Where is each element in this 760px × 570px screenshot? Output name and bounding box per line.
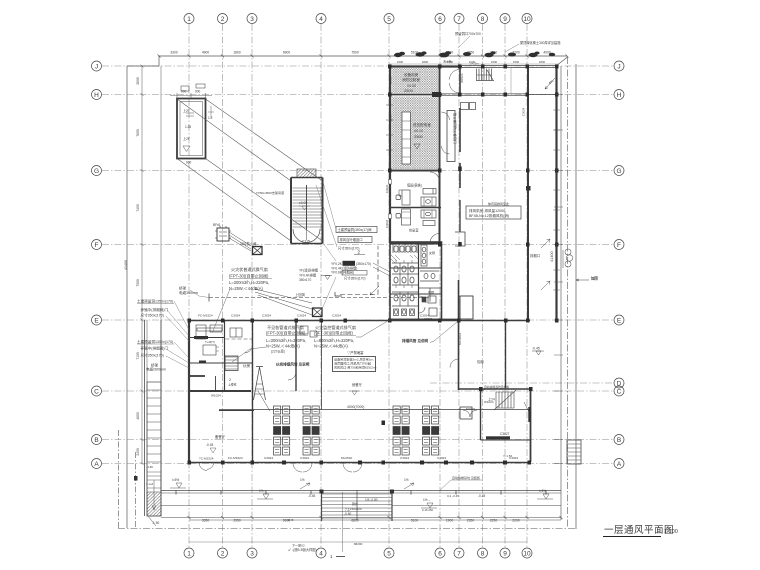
svg-text:H: H: [617, 92, 622, 99]
damper C leaders: [255, 289, 312, 315]
svg-text:2250: 2250: [490, 519, 498, 523]
svg-text:6800: 6800: [351, 519, 359, 523]
office window w2: [389, 214, 392, 219]
hall slope 2: [370, 286, 379, 295]
svg-text:41400: 41400: [550, 251, 554, 262]
axis C left: [92, 386, 102, 396]
wc stalls row1: [393, 244, 417, 253]
ramp arrow: [152, 480, 156, 510]
svg-text:7500: 7500: [351, 51, 359, 55]
stair treads: [293, 188, 322, 227]
grid F: [102, 244, 614, 246]
axis 9 top: [500, 14, 510, 24]
svg-text:W1024: W1024: [484, 400, 494, 404]
wall E north-wing bottom: [389, 319, 460, 321]
column canteen mid: [382, 421, 386, 426]
svg-text:2: 2: [221, 551, 225, 558]
wall office east: [439, 181, 441, 244]
east exterior stair: [567, 440, 581, 464]
terrace corner mark: [148, 516, 156, 526]
svg-text:电缆l300mm: 电缆l300mm: [146, 367, 166, 372]
svg-text:C1524: C1524: [389, 75, 393, 84]
se stair treads: [496, 392, 514, 408]
slope arrow left of stair: [300, 478, 310, 489]
terrace east edge: [560, 66, 562, 520]
svg-text:男厕: 男厕: [428, 290, 434, 295]
svg-text:L=800m3/h,H=220Pa,: L=800m3/h,H=220Pa,: [314, 338, 354, 343]
svg-text:8: 8: [481, 16, 485, 23]
switchgear cabinet: [402, 112, 411, 164]
axis D right: [614, 378, 624, 388]
svg-text:i=5%: i=5%: [172, 478, 179, 482]
svg-text:C3024: C3024: [231, 314, 240, 318]
svg-text:上2F: 上2F: [183, 136, 190, 141]
fan A inner: [219, 232, 227, 236]
RA box1: [336, 227, 377, 233]
grid 10: [526, 24, 528, 548]
slope arrow right of stair: [404, 478, 414, 489]
grid A: [102, 463, 614, 465]
wall west upper exterior: [389, 66, 391, 171]
svg-text:N=25W,＜44dB(A): N=25W,＜44dB(A): [229, 286, 263, 291]
svg-text:B: B: [94, 437, 98, 444]
grid 3: [251, 24, 253, 548]
svg-text:低压配电室: 低压配电室: [413, 122, 431, 127]
svg-text:5100: 5100: [411, 51, 419, 55]
tree 8: [549, 53, 555, 57]
wc stems: [396, 260, 412, 288]
courtyard slope: [210, 448, 216, 453]
svg-text:C: C: [94, 389, 99, 396]
svg-text:C3024: C3024: [264, 456, 273, 460]
wall east upper exterior: [555, 66, 557, 321]
TB3 underline: [314, 335, 356, 337]
svg-text:E: E: [94, 318, 99, 325]
sinks right: [422, 247, 426, 252]
stair top bottom edge: [476, 80, 494, 82]
svg-text:1: 1: [187, 16, 191, 23]
svg-text:-1.50: -1.50: [152, 521, 159, 525]
top sub dim line: [389, 63, 558, 65]
svg-text:-0.45: -0.45: [308, 494, 315, 498]
duct end tick: [208, 294, 210, 302]
kitchen stair small: [225, 356, 238, 371]
column C stair: [479, 387, 483, 391]
terrace step line left: [161, 505, 321, 507]
door arc corridor 2: [450, 83, 460, 93]
office2 chair: [396, 214, 401, 219]
svg-text:设备用房: 设备用房: [404, 72, 419, 77]
svg-text:1:25: 1:25: [185, 125, 191, 129]
svg-text:8: 8: [481, 551, 485, 558]
svg-text:1%→: 1%→: [259, 489, 267, 493]
svg-text:900: 900: [181, 90, 187, 94]
hall slope arrow: [545, 78, 555, 89]
svg-text:6: 6: [438, 551, 442, 558]
grid J: [102, 65, 614, 67]
svg-text:YF0.4K排烟: YF0.4K排烟: [299, 273, 316, 278]
hatch room2 mark: [414, 144, 420, 149]
door arc corridor 1: [450, 70, 460, 80]
exterior stair rail mid: [356, 490, 358, 520]
wall y376 stub: [189, 375, 205, 377]
svg-text:体育馆排风至此: 体育馆排风至此: [488, 201, 509, 206]
grid G: [102, 170, 614, 172]
svg-text:排烟风管 见说明: 排烟风管 见说明: [402, 338, 429, 343]
axis J left: [92, 61, 102, 71]
svg-text:M-C2021: M-C2021: [458, 332, 462, 345]
fan room box: [466, 206, 521, 219]
svg-text:F: F: [617, 242, 621, 249]
level tri mid: [321, 276, 332, 280]
door arc baoxiang: [450, 359, 459, 368]
axis 5 bottom: [384, 548, 394, 558]
hatched room 1 fill: [392, 68, 439, 93]
svg-text:i=5%: i=5%: [539, 489, 546, 493]
svg-text:值班(宿舍): 值班(宿舍): [407, 183, 422, 188]
office2 bed2: [423, 221, 435, 226]
leader diag 3: [177, 159, 291, 242]
canteen level: [349, 391, 360, 395]
svg-text:3: 3: [250, 16, 254, 23]
office1 bed2: [421, 197, 436, 206]
wall grid2 rooms: [224, 320, 226, 391]
axis 2 top: [218, 14, 228, 24]
svg-text:1: 1: [187, 551, 191, 558]
se stair door arc: [480, 389, 487, 396]
door arcs room B: [463, 410, 477, 417]
top window dims: [397, 60, 546, 64]
office2 bed1: [421, 210, 436, 218]
door arc corridor 4: [442, 146, 450, 154]
svg-text:70℃防火阀: 70℃防火阀: [240, 241, 256, 246]
svg-text:2: 2: [221, 16, 225, 23]
wall kitchen south C: [189, 390, 251, 392]
svg-text:A: A: [94, 461, 99, 468]
wall toilet inner v: [418, 242, 420, 319]
svg-text:尺寸350x(170): 尺寸350x(170): [338, 246, 359, 251]
wall hatch-room east: [439, 66, 441, 181]
grid 9: [504, 24, 506, 548]
svg-text:就餐厅: 就餐厅: [352, 382, 363, 387]
wc hatch corner: [391, 255, 400, 263]
boundary top: [127, 56, 567, 66]
stair shaft bottom wall: [291, 243, 323, 245]
wall H: [389, 94, 442, 96]
axis 7 top: [454, 14, 464, 24]
wall top windows: [462, 66, 558, 68]
RA leaders: [316, 182, 337, 309]
svg-text:C3027: C3027: [424, 317, 433, 321]
table cluster 1: [274, 406, 290, 455]
svg-text:38200: 38200: [354, 542, 363, 546]
svg-text:4900: 4900: [202, 51, 210, 55]
axis J right: [614, 61, 624, 71]
wall E main: [188, 320, 530, 322]
urinals: [424, 273, 428, 278]
LA4 underline: [137, 343, 174, 345]
svg-text:2950: 2950: [233, 519, 241, 523]
svg-text:排风百叶烟囱口: 排风百叶烟囱口: [340, 237, 363, 242]
svg-text:C: C: [617, 389, 622, 396]
svg-text:上2F: 上2F: [183, 108, 190, 113]
svg-text:2350: 2350: [467, 519, 475, 523]
wall toilet inner h2: [390, 293, 441, 295]
grid 7: [458, 24, 460, 548]
wall corridor east grid7 lower: [459, 108, 461, 152]
svg-text:上回风: 上回风: [295, 292, 306, 297]
office door arc1: [430, 172, 440, 182]
kitchen counter 2: [210, 325, 222, 332]
svg-text:1900: 1900: [446, 51, 454, 55]
svg-text:4000: 4000: [543, 51, 551, 55]
svg-text:4850: 4850: [136, 412, 140, 420]
wall stair-SE west: [480, 389, 482, 440]
svg-text:↙ -(底B-B剖大样图): ↙ -(底B-B剖大样图): [288, 547, 317, 552]
stair up arrow: [306, 230, 308, 240]
room right of stair: [460, 407, 472, 419]
damper C: [313, 308, 323, 317]
svg-text:L=300m3/h,H=220Pa,: L=300m3/h,H=220Pa,: [266, 338, 306, 343]
wall kitchen mid: [295, 320, 297, 391]
svg-text:尺寸350x(170): 尺寸350x(170): [141, 353, 164, 358]
svg-text:G: G: [616, 168, 621, 175]
fan unit A: [217, 228, 229, 241]
svg-text:±0.00: ±0.00: [299, 201, 307, 205]
svg-text:A: A: [617, 461, 622, 468]
svg-text:10: 10: [523, 551, 531, 558]
svg-text:3300: 3300: [170, 51, 178, 55]
svg-text:排风机房:排风量12000,: 排风机房:排风量12000,: [469, 208, 506, 213]
detail side dim: [208, 106, 214, 118]
corridor equip pair: [461, 103, 469, 110]
west wing wall line: [160, 320, 162, 516]
svg-text:ML2540: ML2540: [341, 456, 352, 460]
svg-text:尺寸350x(170): 尺寸350x(170): [344, 276, 365, 281]
detail dim ticks top: [177, 93, 206, 98]
svg-text:C1524: C1524: [389, 113, 393, 122]
damper B X: [253, 247, 263, 255]
svg-text:H: H: [94, 92, 99, 99]
svg-text:上楼梯: 上楼梯: [228, 383, 237, 387]
svg-text:C3024: C3024: [262, 314, 271, 318]
detail rect inner: [180, 102, 203, 156]
stair top treads: [477, 69, 492, 81]
svg-text:4000(7000): 4000(7000): [347, 405, 364, 409]
svg-text:下一层X2: 下一层X2: [292, 543, 305, 548]
grid 1: [188, 24, 190, 548]
svg-text:土建预留洞(350x(17)阀: 土建预留洞(350x(17)阀: [338, 227, 372, 232]
tables dark row c1: [274, 427, 439, 435]
wc fixtures r4: [394, 295, 398, 301]
axis 10 top: [522, 14, 532, 24]
wall corridor east grid7 stub: [459, 163, 461, 188]
grid H: [102, 94, 614, 96]
table cluster 4: [423, 406, 439, 455]
svg-text:包厢: 包厢: [477, 359, 484, 364]
tree 1: [394, 53, 402, 57]
svg-text:F: F: [95, 242, 99, 249]
svg-text:C3024: C3024: [522, 107, 526, 116]
svg-text:7: 7: [457, 551, 461, 558]
svg-text:41400: 41400: [124, 260, 128, 270]
svg-text:L=300m3/h,H=220Pa,: L=300m3/h,H=220Pa,: [229, 280, 269, 285]
svg-text:W1024: W1024: [211, 394, 221, 398]
desk room1: [203, 345, 216, 355]
wall toilet outline: [390, 242, 442, 320]
svg-text:350x170: 350x170: [299, 278, 311, 282]
svg-text:FC-M1524: FC-M1524: [228, 456, 243, 460]
wall x215 stub: [215, 376, 217, 391]
east edge ticks: [554, 95, 563, 464]
axis A left: [92, 459, 102, 469]
svg-text:1500: 1500: [397, 60, 404, 64]
terrace lower edge: [189, 519, 561, 521]
exterior stair center east: [391, 490, 393, 521]
axis 1 top: [184, 14, 194, 24]
exterior stair treads: [322, 494, 392, 518]
LA4 leaders: [166, 342, 189, 368]
svg-text:▽严禁堵塞: ▽严禁堵塞: [347, 350, 364, 355]
ramp strip west: [147, 382, 161, 516]
wc fixtures r3: [394, 277, 398, 283]
axis G left: [92, 166, 102, 176]
detail triangle mark: [183, 146, 190, 152]
svg-text:电缆300mm: 电缆300mm: [179, 290, 198, 295]
wall rooms y363 sill: [199, 361, 206, 364]
svg-text:休息室: 休息室: [409, 228, 419, 233]
svg-text:2: 2: [229, 378, 231, 382]
svg-text:1500: 1500: [447, 60, 454, 64]
svg-text:YF(消)防排烟: YF(消)防排烟: [299, 268, 318, 273]
bottom overall dim line: [189, 541, 527, 543]
office1 chair: [396, 195, 401, 200]
axis B left: [92, 435, 102, 445]
fan A leaders: [229, 232, 251, 251]
svg-text:10: 10: [523, 16, 531, 23]
svg-text:3: 3: [250, 551, 254, 558]
se stair edges: [496, 392, 514, 408]
corridor stub wall: [459, 200, 461, 232]
axis 4 bottom: [316, 548, 326, 558]
svg-text:2400: 2400: [136, 448, 140, 456]
bottom dim ticks: [188, 516, 563, 519]
wall labels E: [198, 314, 429, 318]
svg-text:7600: 7600: [136, 129, 140, 137]
svg-text:自动扶梯基坑 见结施: 自动扶梯基坑 见结施: [452, 475, 480, 480]
TB2 leader: [232, 347, 266, 362]
wall hatch-room bottom: [390, 170, 440, 172]
wall rooms y337: [189, 337, 224, 339]
slope tri 3: [421, 503, 437, 508]
column row A wall: [188, 461, 192, 465]
svg-text:C3024: C3024: [400, 456, 409, 460]
svg-text:1%: 1%: [300, 478, 305, 482]
svg-text:(350x170): (350x170): [356, 262, 371, 266]
svg-text:-0.60: -0.60: [344, 512, 351, 516]
svg-text:土建预留洞1350x(170): 土建预留洞1350x(170): [137, 299, 173, 304]
toilet sink boxes: [428, 296, 436, 303]
window ticks west upper wall: [386, 105, 393, 150]
toilet equip dark: [422, 297, 426, 302]
revision cloud right: [563, 249, 573, 268]
office1 bed1: [423, 189, 436, 195]
urinal wall: [420, 271, 439, 281]
svg-text:2500: 2500: [414, 134, 424, 139]
svg-text:(FPT-30)(自带止回阀): (FPT-30)(自带止回阀): [229, 273, 269, 279]
stair shaft top wall: [291, 177, 323, 179]
kitchen counter 1: [196, 325, 206, 339]
corridor duct dashed: [226, 338, 253, 340]
svg-text:(227伙房): (227伙房): [271, 349, 285, 354]
svg-text:±0.00: ±0.00: [414, 129, 423, 133]
svg-text:N=25W,＜44dB(A): N=25W,＜44dB(A): [266, 344, 300, 349]
wall labels A: [199, 456, 518, 461]
escalator pit label: [440, 475, 482, 490]
svg-text:C3024: C3024: [509, 456, 518, 460]
grid 6: [439, 24, 441, 548]
svg-text:2500: 2500: [404, 88, 414, 93]
wc row1 fixtures: [394, 246, 398, 252]
svg-text:(FPT-30)(自带止回阀): (FPT-30)(自带止回阀): [266, 330, 306, 336]
svg-text:尺寸350x(170): 尺寸350x(170): [141, 312, 164, 317]
wc fixtures r5: [394, 309, 399, 316]
kitchen box2: [300, 326, 308, 334]
svg-text:2800: 2800: [136, 77, 140, 85]
LA1 underline: [137, 303, 174, 305]
grid 4: [320, 24, 322, 548]
terrace south edge 1: [161, 490, 561, 492]
table cluster 3: [393, 406, 409, 455]
grid 2: [222, 24, 224, 548]
svg-text:2250: 2250: [490, 51, 498, 55]
RA box2: [338, 237, 372, 243]
wall stair-SE east: [530, 389, 532, 462]
svg-text:1/5 -0.80: 1/5 -0.80: [365, 498, 378, 502]
left dim line 1: [141, 66, 143, 464]
TB1 underline: [229, 278, 272, 280]
axis E right: [614, 315, 624, 325]
door arcs W double: [199, 463, 214, 471]
axis B right: [614, 435, 624, 445]
svg-text:9: 9: [503, 551, 507, 558]
wall H windows: [442, 94, 528, 96]
leader diag 2: [206, 99, 323, 181]
terrace step line right: [392, 505, 561, 507]
grid 5: [388, 24, 390, 548]
vertical label box: [447, 111, 455, 162]
cabinet divisions: [402, 121, 411, 157]
column west wall G: [388, 169, 392, 173]
column row E wall: [188, 319, 192, 323]
column east wall G: [526, 169, 530, 173]
LA1 leaders: [166, 301, 189, 341]
ramp mid rungs: [147, 472, 161, 488]
svg-text:女厕: 女厕: [429, 250, 435, 255]
kitchen door arc2: [288, 372, 296, 380]
svg-text:(9FT-30)(自带止回阀): (9FT-30)(自带止回阀): [314, 330, 354, 336]
tree 4: [463, 52, 471, 56]
svg-text:C3024: C3024: [300, 456, 309, 460]
svg-text:150x300: 150x300: [350, 507, 362, 511]
svg-text:消防控制室: 消防控制室: [402, 77, 420, 82]
exterior stair center west: [321, 490, 323, 521]
svg-text:C3024: C3024: [385, 219, 389, 228]
grid C: [102, 390, 614, 392]
svg-text:6900: 6900: [283, 51, 291, 55]
title underline: [603, 536, 661, 538]
axis 3 top: [247, 14, 257, 24]
